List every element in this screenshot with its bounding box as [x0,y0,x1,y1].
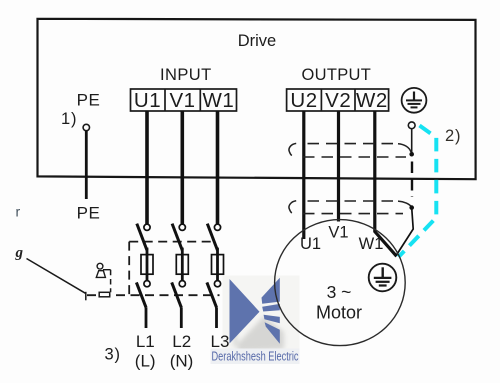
svg-text:W2: W2 [356,89,388,112]
svg-text:(N): (N) [170,352,194,371]
motor PE symbol [369,264,397,292]
pole 2 blade [172,224,182,251]
pole 2 wire through fuse [181,248,184,281]
svg-text:L1: L1 [136,332,155,351]
shield junction dot lower [409,205,414,210]
fuse F3 [212,255,224,275]
motor circle [275,220,406,346]
svg-text:1): 1) [61,110,77,128]
svg-text:L3: L3 [211,332,230,351]
switch enclosure dashed top [129,241,212,243]
padlock [96,263,110,277]
output phase wire U2 [302,111,305,239]
svg-text:U1: U1 [134,89,161,112]
svg-text:U2: U2 [290,89,317,112]
svg-text:(L): (L) [135,352,156,371]
pole 1 lower contact [144,281,150,287]
svg-text:g: g [15,245,24,261]
input terminal block [131,89,237,111]
output phase wire W2 [375,111,397,256]
svg-text:3 ~: 3 ~ [327,282,352,302]
pole 1 blade [137,224,147,251]
pole 2 outgoing wire [180,308,183,328]
shield terminal circle [408,122,415,129]
shield drain wire to motor [397,208,413,255]
input phase wire V1 [181,111,185,224]
fuse F2 [176,255,188,275]
svg-text:Drive: Drive [238,32,277,50]
padlock dashed vertical [110,270,112,293]
output phase wire V2 [337,111,340,222]
pole 1 lower blade [136,282,146,308]
mechanical linkage dashed line + enclosure bottom [87,294,220,296]
svg-text:PE: PE [77,91,101,110]
pole 3 wire through fuse [216,248,219,281]
svg-text:3): 3) [105,346,121,364]
svg-text:Motor: Motor [316,303,362,323]
PE conductor wire [85,131,88,199]
disconnect pole 3 contact [214,224,220,230]
equipotential bonding cable (cyan) [399,126,437,258]
dashed drain link [411,162,413,198]
switch enclosure dashed left [128,242,130,296]
svg-text:W1: W1 [359,235,384,253]
svg-text:L2: L2 [172,332,191,351]
PE pickup circle [83,124,89,130]
shield junction dot upper [409,152,414,157]
pole 3 outgoing wire [215,308,218,328]
pole 3 lower contact [214,281,220,287]
svg-text:INPUT: INPUT [160,66,212,84]
watermark logo background [223,276,300,363]
input phase wire W1 [216,111,220,224]
pole 2 lower contact [179,281,185,287]
disconnect pole 2 contact [179,224,185,230]
pole 1 outgoing wire [145,308,148,328]
interlock actuator line [27,259,86,294]
svg-text:2): 2) [445,127,461,145]
fuse F1 [141,255,153,275]
svg-text:OUTPUT: OUTPUT [301,66,371,84]
input phase wire U1 [145,111,149,224]
svg-text:U1: U1 [300,235,321,253]
output terminal block [287,89,389,111]
pole 1 wire through fuse [146,248,149,281]
shield symbol lower [289,201,411,214]
svg-text:W1: W1 [203,89,235,112]
pole 3 lower blade [207,282,217,308]
svg-text:V2: V2 [325,89,351,112]
drive enclosure box [38,19,476,179]
watermark logo triangle [230,279,260,344]
wire terminal to junction [411,129,413,152]
pole 3 blade [207,224,217,251]
PE symbol (drive) [402,88,427,113]
svg-text:r: r [16,204,21,220]
watermark logo text plate [211,349,300,365]
svg-text:V1: V1 [328,224,348,242]
linkage rectangle [99,292,110,297]
interlock end tick [85,292,87,301]
svg-text:V1: V1 [169,89,195,112]
watermark logo rays [262,278,280,344]
pole 2 lower blade [172,282,182,308]
svg-text:PE: PE [77,204,101,223]
svg-text:Derakhshesh Electric: Derakhshesh Electric [212,350,299,364]
disconnect pole 1 contact [144,224,150,230]
shield symbol upper [289,143,411,157]
